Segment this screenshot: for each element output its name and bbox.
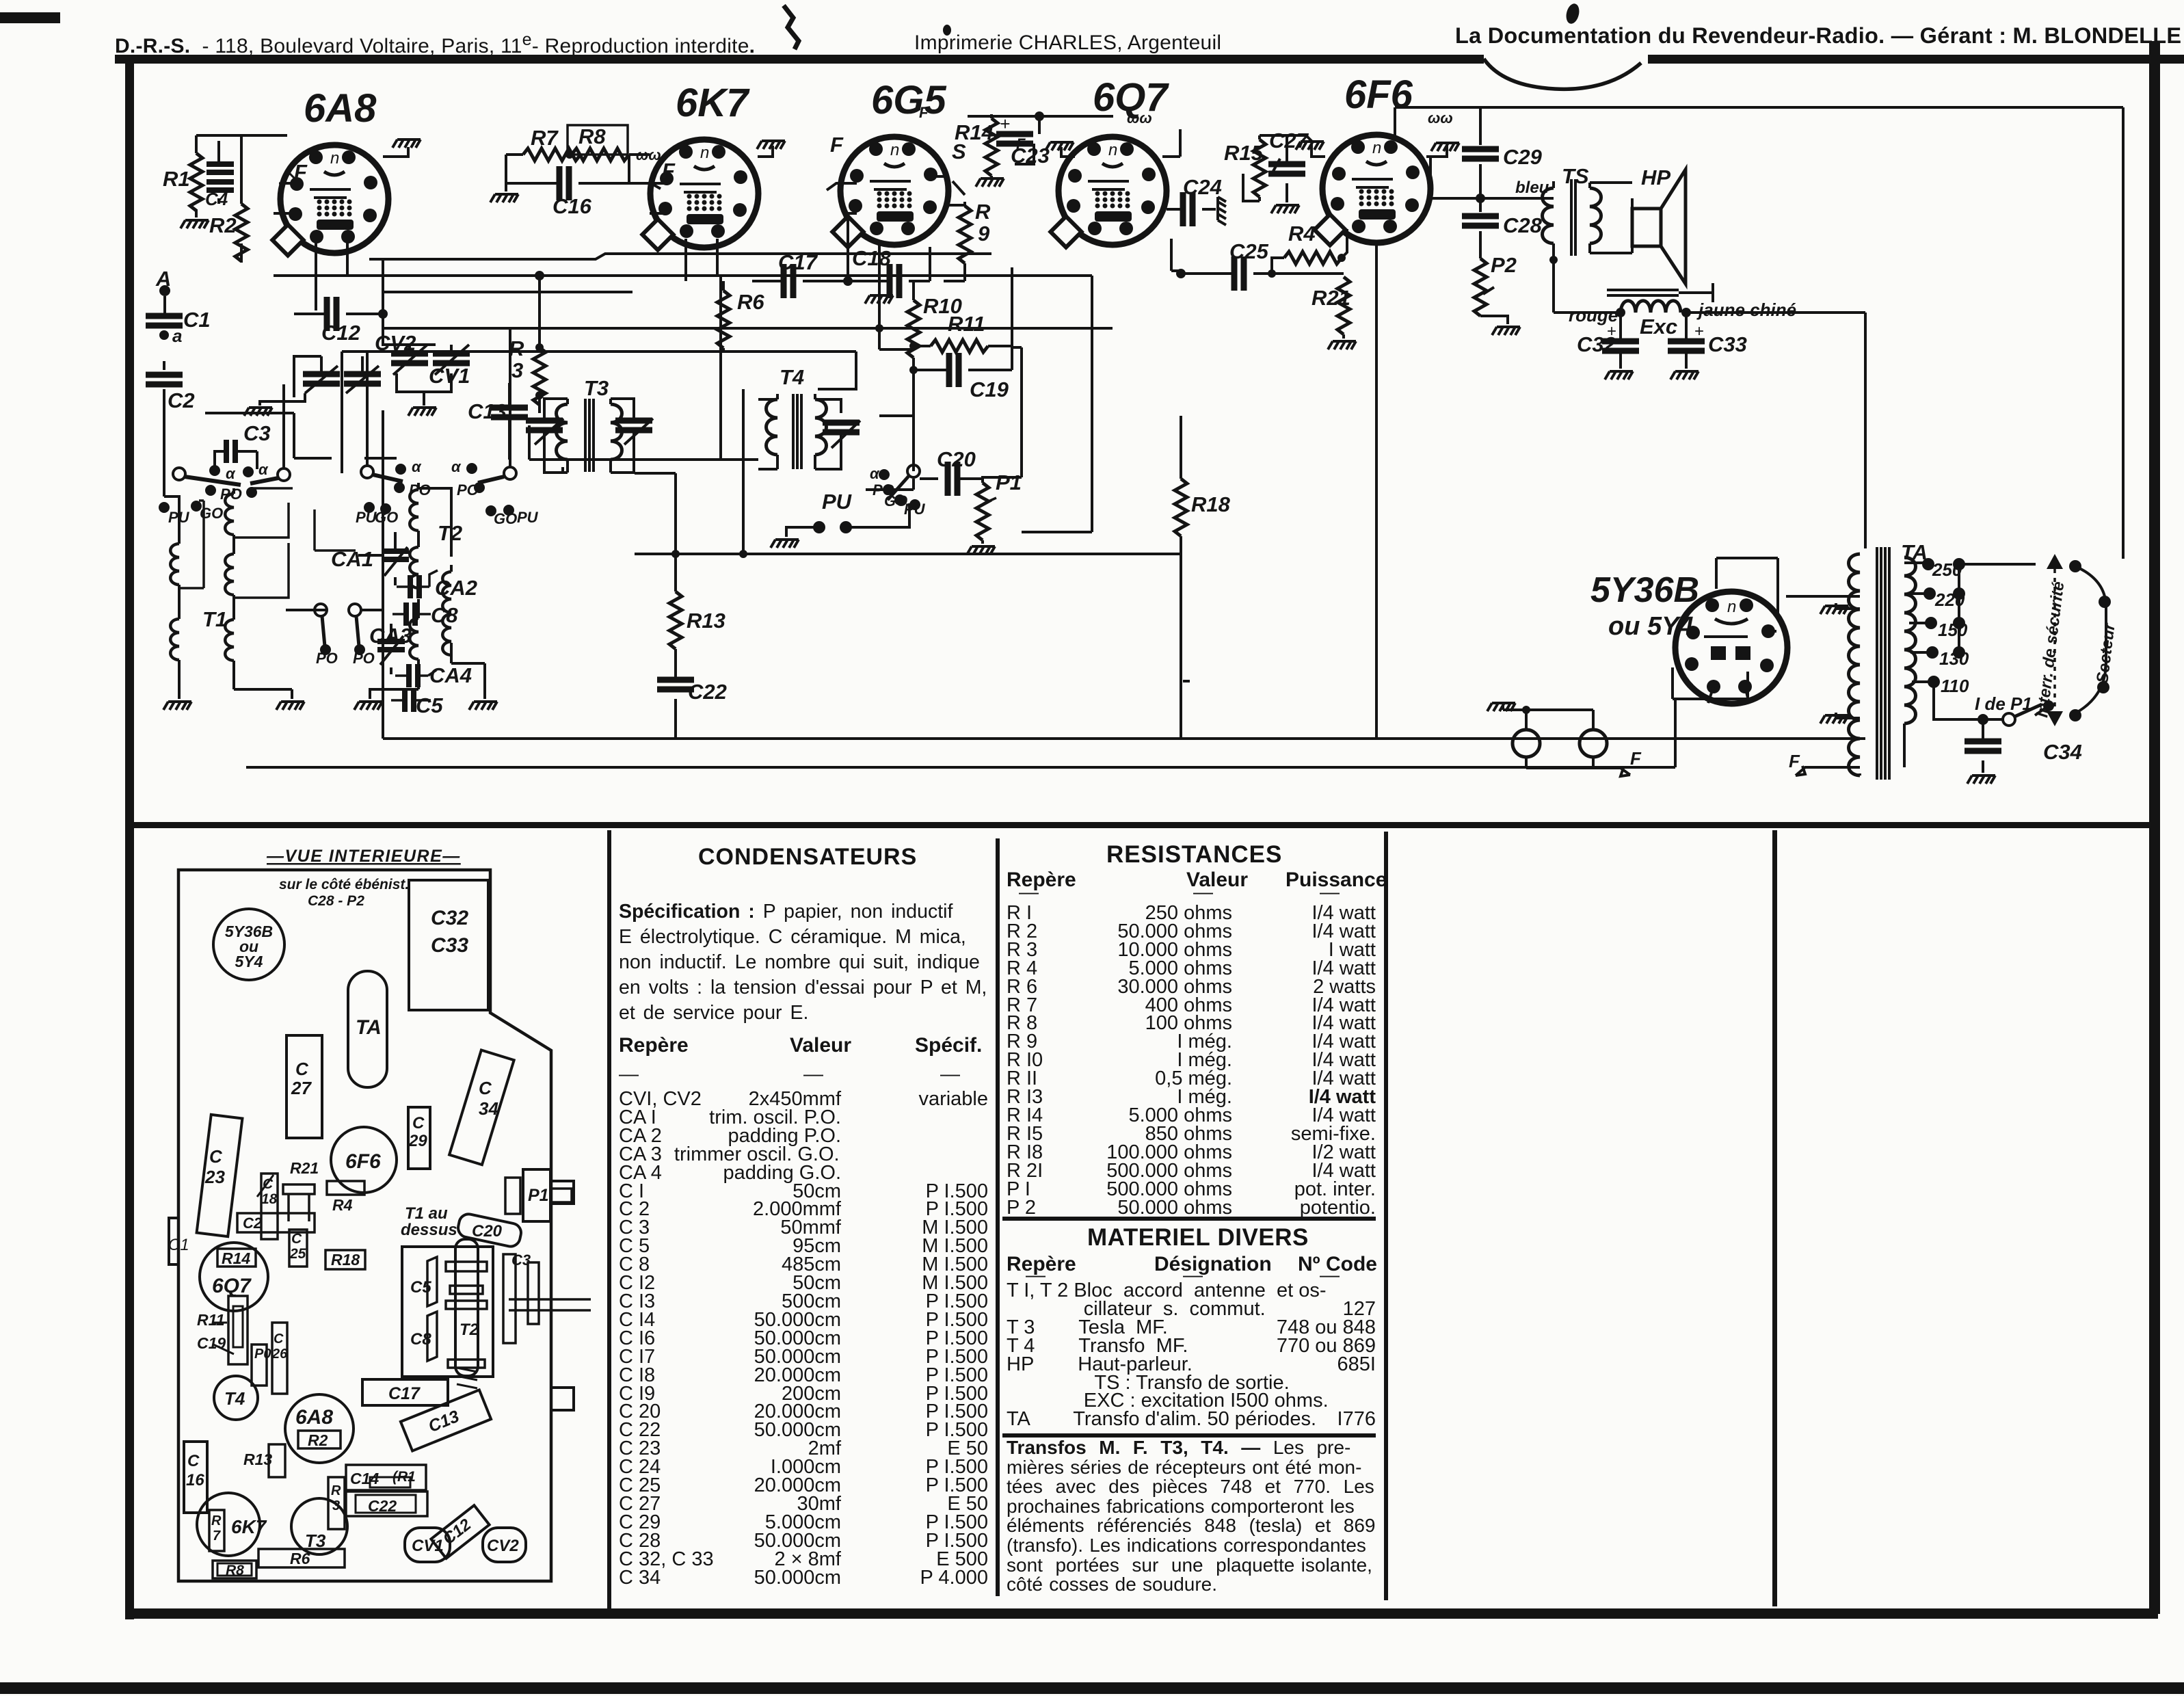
svg-text:CV1: CV1 [429,364,470,388]
svg-text:R2: R2 [209,213,237,237]
svg-text:6K7: 6K7 [676,81,750,125]
svg-text:dessus: dessus [401,1221,457,1239]
svg-text:F: F [919,104,929,121]
svg-text:26: 26 [271,1347,288,1362]
svg-text:C: C [412,1114,425,1132]
svg-text:sur le côté ébénist.: sur le côté ébénist. [279,877,409,892]
svg-text:C28 - P2: C28 - P2 [308,893,364,909]
svg-text:R: R [331,1483,341,1498]
svg-text:α: α [412,458,422,475]
svg-text:C29: C29 [1503,145,1543,169]
svg-text:6A8: 6A8 [295,1406,333,1429]
svg-text:PU: PU [822,490,853,514]
svg-text:CA4: CA4 [429,663,472,687]
svg-text:F: F [1789,751,1800,771]
svg-text:5Y36B: 5Y36B [1590,570,1699,610]
svg-text:R13: R13 [243,1450,272,1468]
svg-text:P1: P1 [528,1186,549,1205]
svg-text:R6: R6 [737,290,764,314]
svg-text:C3: C3 [243,421,271,445]
svg-text:HP: HP [1641,165,1670,189]
svg-text:29: 29 [408,1132,427,1150]
svg-text:ωω: ωω [1428,109,1453,127]
svg-text:F: F [830,133,844,157]
svg-text:C5: C5 [410,1278,431,1297]
svg-text:23: 23 [204,1167,225,1187]
svg-text:T4: T4 [224,1388,245,1409]
svg-text:C33: C33 [431,934,468,957]
svg-text:C: C [187,1452,200,1470]
svg-text:C17: C17 [388,1384,421,1403]
svg-text:C: C [291,1231,302,1247]
svg-text:+: + [1607,322,1616,341]
svg-text:P2: P2 [1491,253,1517,277]
svg-text:6Q7: 6Q7 [212,1275,252,1297]
svg-text:R4: R4 [1288,222,1316,246]
svg-text:R1: R1 [163,167,190,191]
svg-text:α: α [451,458,462,475]
svg-text:R2: R2 [308,1431,328,1449]
svg-text:—VUE INTERIEURE—: —VUE INTERIEURE— [266,847,461,866]
svg-text:R11: R11 [948,312,985,336]
svg-text:R6: R6 [290,1550,310,1567]
svg-text:C22: C22 [368,1497,397,1515]
svg-text:C: C [263,1176,274,1192]
svg-text:+: + [1694,322,1704,341]
svg-text:α: α [258,461,269,478]
svg-text:C1: C1 [183,308,211,332]
svg-text:n: n [1727,598,1736,616]
svg-text:C1: C1 [168,1236,189,1254]
svg-text:P0: P0 [254,1347,271,1362]
svg-text:7: 7 [213,1528,221,1543]
svg-text:C18: C18 [852,246,892,270]
svg-text:C8: C8 [410,1330,431,1349]
svg-text:PU: PU [517,509,539,526]
svg-text:R13: R13 [687,609,725,633]
svg-text:3: 3 [332,1498,340,1513]
svg-text:F: F [662,159,676,183]
svg-text:6K7: 6K7 [231,1516,267,1537]
svg-text:C2: C2 [168,388,195,412]
svg-text:Exc: Exc [1640,315,1677,339]
svg-text:16: 16 [186,1471,204,1489]
svg-text:ωω: ωω [1127,109,1152,127]
svg-text:C3: C3 [511,1251,531,1269]
svg-text:C5: C5 [416,693,443,717]
svg-text:Interr. de sécurité: Interr. de sécurité [2033,581,2068,719]
svg-text:R18: R18 [331,1251,360,1269]
svg-text:T3: T3 [584,376,609,400]
svg-text:27: 27 [291,1078,312,1098]
svg-text:C32: C32 [431,907,468,929]
svg-text:C33: C33 [1708,332,1747,356]
svg-text:C34: C34 [2043,740,2082,764]
svg-text:25: 25 [289,1246,306,1262]
svg-text:C19: C19 [970,377,1009,401]
svg-text:C: C [479,1078,492,1098]
svg-text:R8: R8 [226,1563,244,1578]
svg-text:R8: R8 [578,124,606,148]
svg-text:T2: T2 [460,1321,479,1339]
svg-text:F: F [1630,748,1642,769]
svg-text:P1: P1 [996,471,1022,494]
svg-text:5Y4: 5Y4 [235,953,263,970]
svg-text:TA: TA [356,1016,382,1039]
svg-text:9: 9 [978,222,990,246]
svg-text:α: α [870,465,880,482]
svg-text:C24: C24 [1183,175,1222,199]
svg-text:T4: T4 [780,365,804,389]
svg-text:+: + [1000,114,1010,134]
svg-text:6F6: 6F6 [345,1150,381,1173]
svg-text:R: R [211,1513,222,1528]
svg-text:C14: C14 [350,1470,379,1487]
svg-text:34: 34 [479,1098,498,1119]
svg-text:T1: T1 [202,607,227,631]
svg-text:C2: C2 [243,1215,263,1232]
svg-text:R4: R4 [332,1196,353,1214]
svg-text:α: α [226,465,236,482]
svg-text:110: 110 [1941,676,1969,696]
svg-text:R21: R21 [290,1159,319,1177]
svg-text:C: C [295,1059,309,1079]
svg-text:jaune chiné: jaune chiné [1696,300,1796,320]
svg-text:C: C [209,1146,223,1167]
svg-text:R: R [975,200,991,224]
svg-text:R14: R14 [222,1249,250,1267]
svg-text:18: 18 [261,1191,278,1207]
svg-text:T1 au: T1 au [405,1204,448,1223]
svg-text:C12: C12 [440,1515,475,1548]
svg-text:CV2: CV2 [487,1537,519,1555]
svg-text:CV1: CV1 [412,1537,444,1555]
svg-text:6F6: 6F6 [1344,72,1413,117]
svg-text:C20: C20 [472,1222,503,1241]
svg-text:C: C [274,1331,284,1347]
svg-text:R18: R18 [1191,492,1231,516]
svg-text:6G5: 6G5 [871,78,946,122]
svg-text:C28: C28 [1503,213,1543,237]
svg-text:R11: R11 [197,1311,225,1329]
svg-text:3: 3 [511,358,523,382]
svg-text:6A8: 6A8 [304,86,377,131]
